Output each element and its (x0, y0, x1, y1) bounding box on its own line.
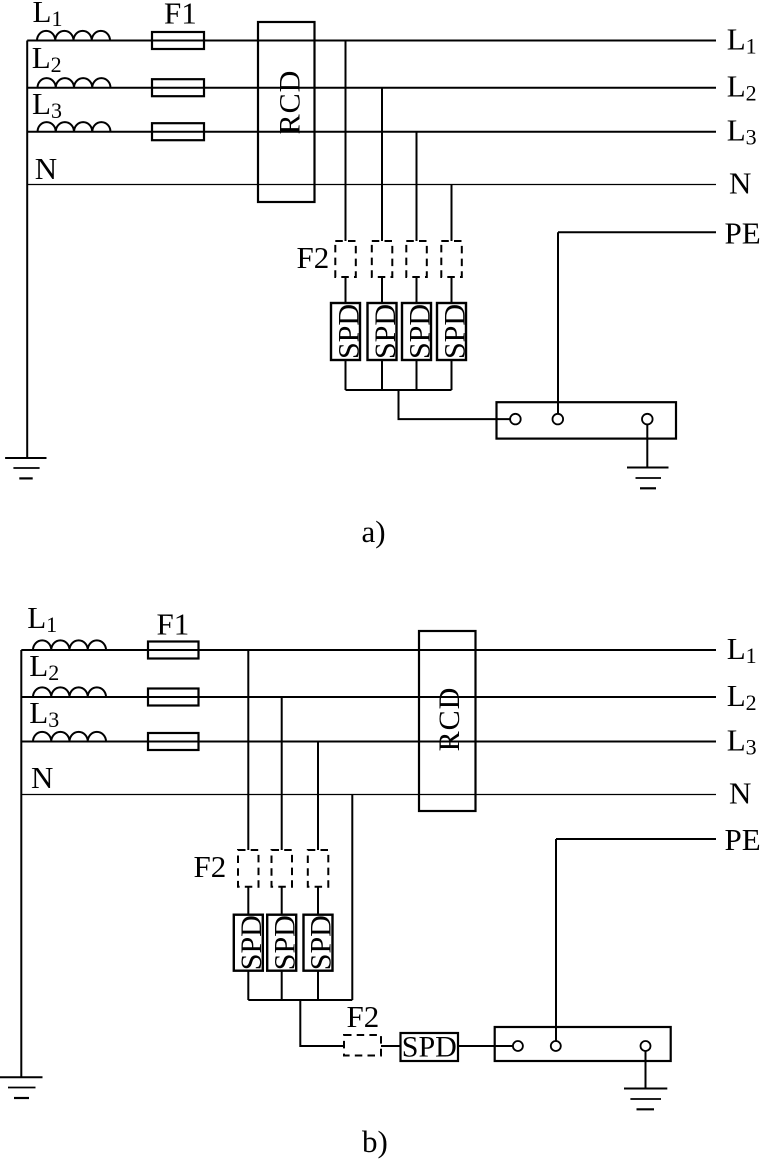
wire PE vertical to bar b (555, 839, 557, 1041)
wire line L2 b (21, 696, 716, 698)
wire bus below SPDs b (248, 999, 352, 1001)
wire F2h to SPDh b (381, 1045, 401, 1047)
svg-text:N: N (35, 151, 57, 186)
terminal circle 1 b (513, 1041, 523, 1051)
wire tap L1 to SPD1 b (247, 650, 249, 850)
SPD arrester box 3 b (304, 915, 333, 971)
svg-text:L2: L2 (727, 69, 757, 106)
fuse F2 dashed box horizontal b (344, 1035, 381, 1056)
svg-text:L3: L3 (727, 113, 757, 150)
wire tap L3 to SPD3 a (416, 132, 418, 241)
wire stub box1-spd1 b (247, 887, 249, 915)
fuse F1 phase L1 a (152, 32, 204, 49)
fuse F2 dashed box 3 a (406, 241, 427, 277)
RCD U1 box a (258, 22, 315, 202)
svg-text:b): b) (362, 1124, 388, 1159)
svg-text:a): a) (362, 514, 386, 549)
terminal circle 2 a (553, 414, 564, 425)
wire spd3 bottom b (317, 971, 319, 1000)
wire PE line b (556, 838, 716, 840)
fuse F2 dashed box 3 b (308, 850, 329, 887)
svg-text:L1: L1 (33, 0, 63, 31)
SPD arrester box horizontal b (401, 1033, 459, 1061)
wire line L3 a (27, 131, 716, 133)
fuse F2 dashed box 2 a (372, 241, 393, 277)
wire spd4 bottom a (451, 360, 453, 390)
wire stub box4-spd4 a (451, 277, 453, 303)
earth terminal bar b (495, 1027, 671, 1061)
wire spd2 bottom a (381, 360, 383, 390)
inductor coil L1 b (33, 640, 106, 650)
wire drop from bus a (399, 390, 511, 419)
wire line L1 a (27, 40, 716, 42)
svg-text:SPD: SPD (305, 915, 338, 970)
wire tap L2 to SPD2 b (281, 697, 283, 850)
wire tap L2 to SPD2 a (381, 88, 383, 241)
svg-text:F1: F1 (157, 607, 190, 642)
wire spd1 bottom b (247, 971, 249, 1000)
SPD arrester box 2 a (368, 303, 397, 360)
svg-text:SPD: SPD (332, 304, 365, 359)
fuse F2 dashed box 1 b (238, 850, 259, 887)
svg-text:L2: L2 (727, 678, 757, 715)
wire line N b (21, 794, 716, 796)
svg-text:F2: F2 (194, 849, 227, 884)
wire drop from bus b (300, 1000, 344, 1046)
svg-text:L2: L2 (32, 40, 62, 77)
svg-text:RCD: RCD (274, 70, 307, 135)
svg-text:L3: L3 (727, 723, 757, 760)
svg-text:SPD: SPD (402, 1031, 457, 1064)
RCD U2 box b (419, 631, 476, 811)
svg-text:L3: L3 (29, 695, 59, 732)
wire stub box3-spd3 a (416, 277, 418, 303)
SPD arrester box 2 b (267, 915, 296, 971)
wire line L3 b (21, 741, 716, 743)
SPD arrester box 3 a (402, 303, 431, 360)
svg-text:SPD: SPD (235, 915, 268, 970)
inductor coil L3 a (38, 122, 111, 132)
ground right a (627, 468, 669, 489)
terminal circle 1 a (510, 414, 521, 425)
wire line L2 a (27, 87, 716, 89)
SPD arrester box 1 a (331, 303, 360, 360)
wire stub box1-spd1 a (345, 277, 347, 303)
SPD arrester box 4 a (437, 303, 466, 360)
wire SPDh to bar b (458, 1045, 513, 1047)
svg-text:SPD: SPD (268, 915, 301, 970)
ground left a (5, 458, 46, 478)
fuse F1 phase L2 a (152, 79, 204, 96)
svg-text:F2: F2 (297, 240, 330, 275)
wire tap N to SPD4 a (451, 185, 453, 242)
inductor coil L1 a (37, 31, 110, 41)
fuse F1 phase L3 a (152, 123, 204, 140)
wire terminal3 to ground a (646, 424, 648, 467)
SPD arrester box 1 b (234, 915, 263, 971)
wire tap L1 to SPD1 a (345, 41, 347, 242)
wire bus below SPDs a (346, 389, 452, 391)
svg-text:F2: F2 (347, 999, 380, 1034)
svg-text:RCD: RCD (433, 687, 466, 752)
svg-text:L1: L1 (727, 631, 757, 668)
fuse F2 dashed box 1 a (335, 241, 356, 277)
fuse F1 phase L1 b (148, 642, 199, 659)
fuse F2 dashed box 4 a (441, 241, 462, 277)
terminal circle 3 a (642, 414, 653, 425)
svg-text:N: N (729, 166, 751, 201)
terminal circle 3 b (641, 1041, 651, 1051)
fuse F1 phase L3 b (148, 733, 199, 750)
wire line L1 b (21, 649, 716, 651)
svg-text:SPD: SPD (403, 304, 436, 359)
wire left vertical bus a (26, 41, 28, 459)
wire tap L3 to SPD3 b (317, 742, 319, 851)
svg-text:SPD: SPD (369, 304, 402, 359)
svg-text:F1: F1 (164, 0, 197, 31)
wire spd1 bottom a (345, 360, 347, 390)
wire terminal3 to ground b (645, 1051, 647, 1089)
svg-text:SPD: SPD (438, 304, 471, 359)
inductor coil L3 b (33, 732, 106, 742)
svg-text:L1: L1 (27, 600, 57, 637)
wire tap N to bus b (351, 795, 353, 1001)
svg-text:N: N (729, 776, 751, 811)
wire stub box2-spd2 b (281, 887, 283, 915)
wire PE vertical to bar a (557, 232, 559, 413)
wire PE line a (558, 231, 716, 233)
svg-text:N: N (31, 760, 53, 795)
wire line N a (27, 184, 716, 186)
fuse F1 phase L2 b (148, 689, 199, 706)
wire spd2 bottom b (281, 971, 283, 1000)
terminal circle 2 b (551, 1041, 561, 1051)
ground right b (624, 1089, 667, 1110)
svg-text:L2: L2 (29, 648, 59, 685)
wire spd3 bottom a (416, 360, 418, 390)
svg-text:L1: L1 (727, 22, 757, 59)
svg-text:PE: PE (725, 822, 760, 857)
fuse F2 dashed box 2 b (272, 850, 293, 887)
svg-text:PE: PE (725, 216, 760, 251)
inductor coil L2 a (38, 78, 111, 88)
earth terminal bar a (497, 402, 677, 438)
inductor coil L2 b (33, 687, 106, 697)
wire stub box2-spd2 a (381, 277, 383, 303)
svg-text:L3: L3 (32, 86, 62, 123)
wire stub box3-spd3 b (317, 887, 319, 915)
wire left vertical bus b (20, 650, 22, 1077)
ground left b (0, 1077, 43, 1098)
